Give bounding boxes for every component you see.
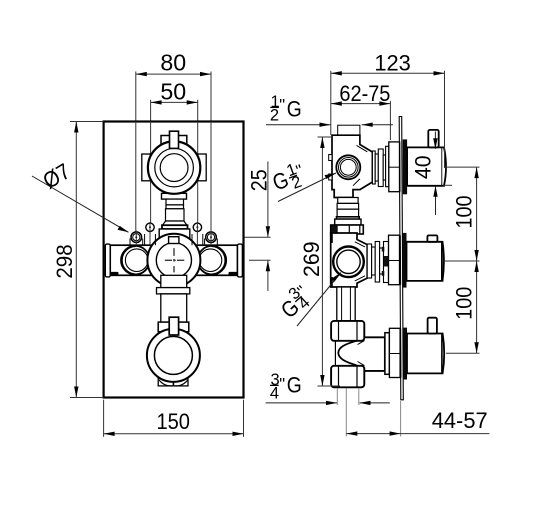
pipe waist C-curve [334,341,336,365]
dim 50 extension line left [150,100,152,228]
dim 50 [151,78,198,104]
wall crossing [400,328,402,377]
svg-text:2: 2 [270,107,279,125]
cartridge [367,244,371,278]
svg-text:269: 269 [299,241,324,277]
knob [407,242,444,281]
dim 298 [52,122,103,398]
right port circle [198,246,227,275]
svg-text:40: 40 [410,155,435,179]
wall crossing [399,235,401,285]
screws: inner right [192,222,203,245]
pipe top->middle [331,198,364,235]
svg-text:100: 100 [451,196,476,229]
cartridge [372,151,375,184]
pin [428,318,437,334]
dim 50 extension line right [197,100,199,228]
flange [389,142,400,192]
svg-text:": " [279,375,285,393]
svg-text:G: G [287,373,302,398]
dim 269 [299,137,340,386]
dim 62-75 [331,81,391,140]
re-draw ext lines inside plate (they show until knobs drawn over) [135,122,137,238]
pipe middle->bottom [331,287,385,387]
dim 80 extension line right [210,72,212,238]
middle valve horizontal body [110,245,237,275]
svg-text:G: G [287,96,302,121]
dim 80 [136,50,211,77]
dims 100/100 [444,167,480,353]
top knob collar [161,136,187,153]
wall plate [399,117,403,400]
port circles [336,155,360,179]
bottom knob tab [169,317,178,335]
label G3/4" rotated [273,280,317,324]
svg-text:": " [279,96,285,114]
svg-text:62-75: 62-75 [339,81,390,106]
dim Ø7 leader [32,159,129,233]
dark bar [403,139,407,194]
port circles [333,246,364,277]
bottom knob feet [158,378,188,386]
upper hex nut [331,321,364,341]
flange [389,235,400,285]
svg-text:44-57: 44-57 [432,408,488,433]
left port circle [121,246,150,275]
right end cap [238,244,243,277]
spout [407,334,444,374]
top knob left tab [142,154,150,181]
inlet stub [338,125,360,135]
leader G3/4 [297,273,341,327]
dim 40 [410,132,452,216]
svg-text:4: 4 [270,385,279,403]
top knob stem [170,131,179,148]
top knob right tab [198,154,206,181]
button [427,235,437,241]
middle central circle [147,234,200,287]
button [428,130,438,148]
crosshair [165,259,172,261]
svg-text:25: 25 [246,169,271,191]
label G1/2" rotated [268,158,309,199]
svg-text:150: 150 [156,409,190,434]
left end cap [105,244,110,277]
bottom knob circles [147,329,200,382]
label 3/4"G [266,371,390,405]
svg-text:50: 50 [160,78,186,104]
corner tabs [110,272,119,276]
screws: inner left [145,222,156,245]
neck below top knob [159,193,190,245]
screws: outer right [205,231,218,246]
elbow tube to wall [356,337,385,371]
neck below middle body [157,275,190,331]
left bumps [329,155,332,161]
wall crossing [399,142,401,192]
lower hex nut [331,366,364,388]
dim 80 extension line left [135,72,137,238]
dim 44-57 [337,389,489,437]
notch rect [169,237,179,244]
label 1/2"G [266,93,393,127]
svg-text:80: 80 [160,50,186,76]
dim 25 [245,162,272,292]
svg-text:123: 123 [374,51,411,76]
body [332,135,372,197]
svg-text:100: 100 [451,287,476,320]
dark bar [402,233,406,288]
top knob circles [148,141,200,193]
body [331,233,368,287]
dim 123 [331,51,445,168]
dim 150 [104,400,244,437]
knob [407,147,446,185]
dark bar [403,328,407,380]
leader G1/2 [278,173,336,202]
svg-text:298: 298 [52,244,77,278]
feet arcs [159,380,173,386]
front plate [104,122,244,398]
screws: outer left [130,231,143,246]
